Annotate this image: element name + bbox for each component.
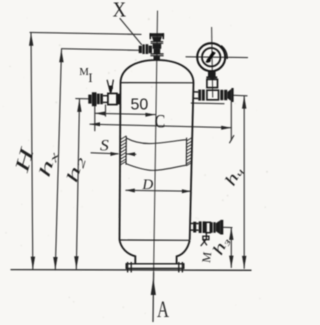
svg-text:I: I <box>88 71 92 85</box>
svg-text:D: D <box>141 177 153 193</box>
svg-text:C: C <box>155 112 166 132</box>
svg-text:A: A <box>157 297 169 322</box>
svg-text:X: X <box>113 0 127 22</box>
svg-text:S: S <box>100 138 109 155</box>
svg-text:50: 50 <box>131 96 149 113</box>
